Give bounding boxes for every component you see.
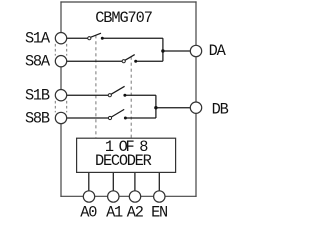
svg-text:DECODER: DECODER <box>95 152 152 170</box>
svg-text:S1A: S1A <box>25 30 51 48</box>
svg-text:DB: DB <box>212 101 229 119</box>
svg-text:A0: A0 <box>80 204 97 222</box>
svg-text:S8B: S8B <box>25 110 50 128</box>
svg-text:CBMG707: CBMG707 <box>95 9 152 27</box>
svg-text:DA: DA <box>209 42 227 60</box>
svg-text:A1: A1 <box>106 204 123 222</box>
svg-text:A2: A2 <box>127 204 144 222</box>
svg-text:S8A: S8A <box>25 53 51 71</box>
svg-text:EN: EN <box>151 204 167 222</box>
svg-text:S1B: S1B <box>25 87 50 105</box>
